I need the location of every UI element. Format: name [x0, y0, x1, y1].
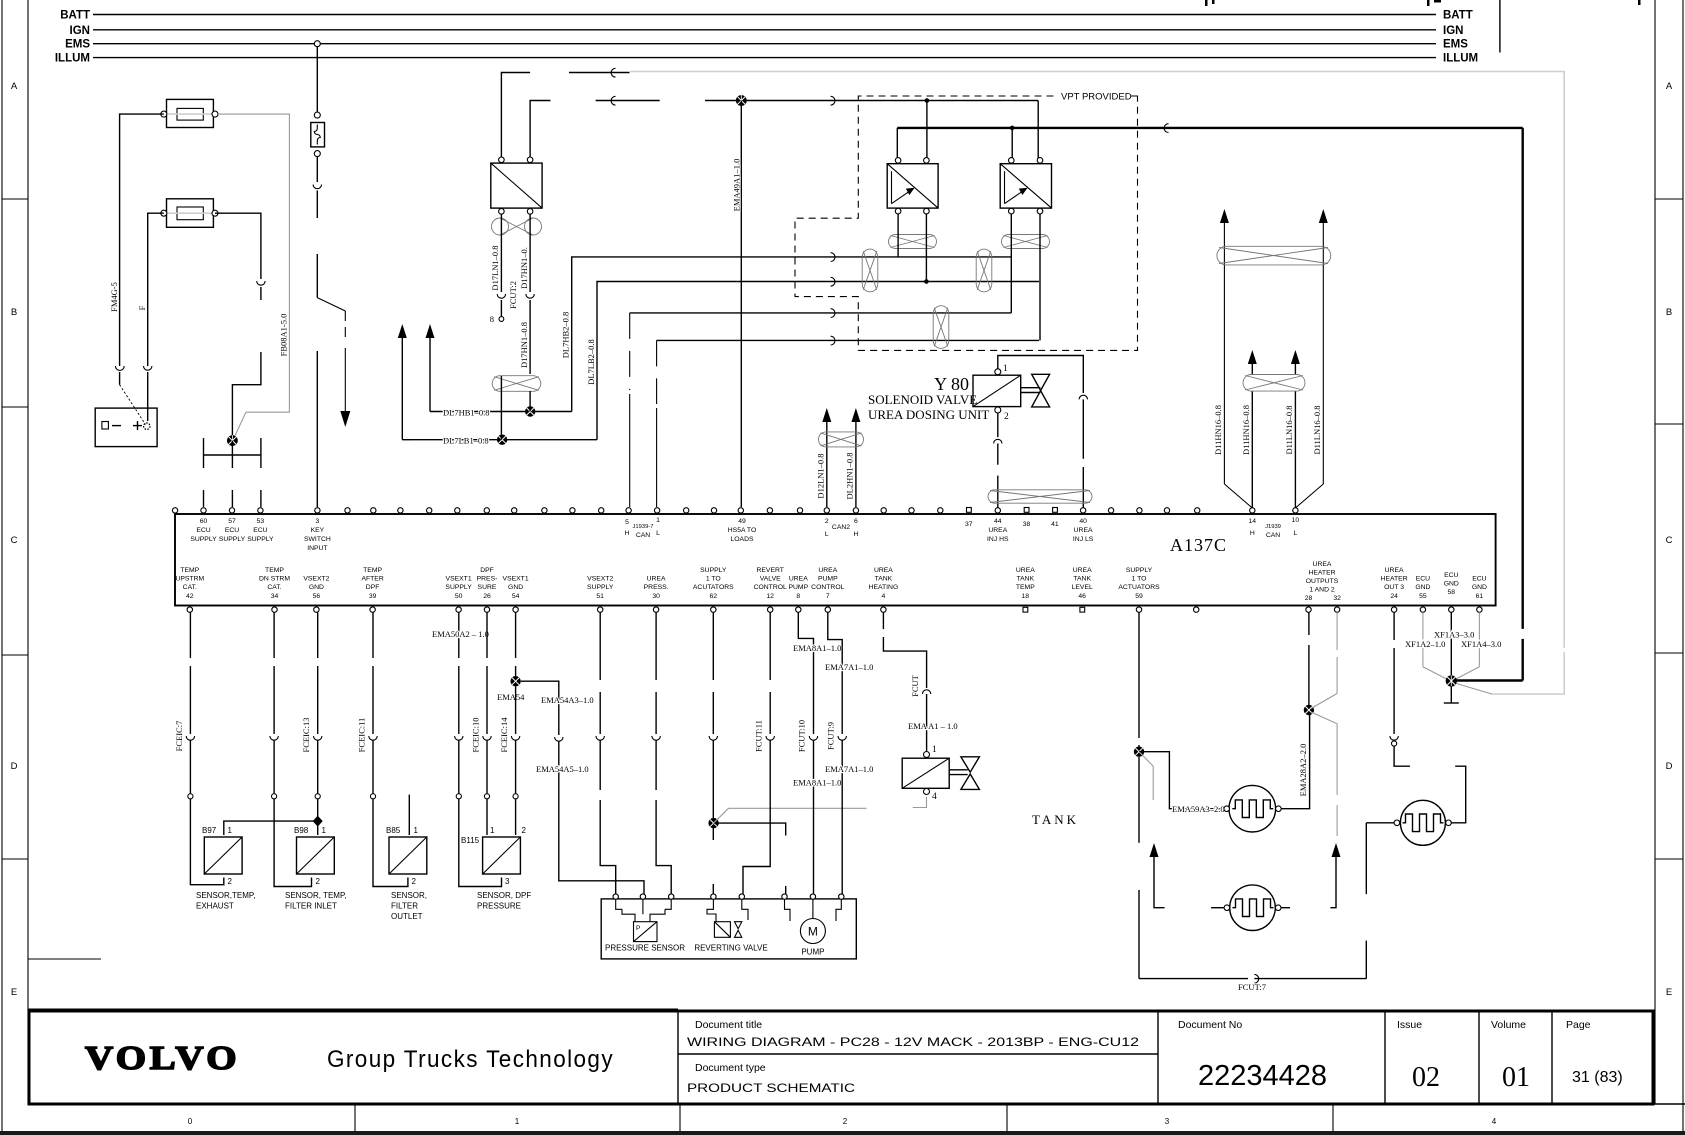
wire pin59 lower loop FCUT:7: [1139, 757, 1394, 992]
wire DL7HB2-0.8 riser: [561, 253, 1012, 412]
svg-text:GND: GND: [1444, 581, 1459, 588]
sensor B115 dpf pressure: [461, 826, 531, 911]
svg-text:FCUT:7: FCUT:7: [1238, 982, 1266, 992]
svg-text:FCEIC:14: FCEIC:14: [499, 717, 509, 753]
svg-text:ECU: ECU: [225, 527, 239, 534]
svg-text:XF1A2–1.0: XF1A2–1.0: [1405, 639, 1445, 649]
svg-text:SURE: SURE: [478, 584, 497, 591]
svg-text:EMA54A3–1.0: EMA54A3–1.0: [541, 695, 594, 705]
svg-text:Document title: Document title: [695, 1019, 762, 1031]
svg-text:CAT.: CAT.: [183, 584, 197, 591]
svg-text:SENSOR, DPF: SENSOR, DPF: [477, 891, 531, 900]
wire DL7LB2-0.8 riser: [586, 277, 1039, 439]
svg-text:54: 54: [512, 593, 520, 600]
svg-text:34: 34: [271, 593, 279, 600]
splice DL7HB1: [525, 406, 535, 416]
svg-text:PRESS.: PRESS.: [644, 584, 669, 591]
svg-text:FCEIC:7: FCEIC:7: [174, 721, 184, 752]
svg-text:CONTROL: CONTROL: [811, 584, 844, 591]
wire grey branch from EMA59 splice: [1139, 752, 1153, 800]
svg-text:HEATING: HEATING: [869, 584, 899, 591]
svg-text:D: D: [1666, 761, 1673, 772]
svg-text:D: D: [11, 761, 18, 772]
svg-text:1: 1: [322, 826, 327, 835]
twisted pair urea injector wires: [988, 490, 1092, 503]
svg-text:CAT.: CAT.: [267, 584, 281, 591]
wire FB08A1-5.0 (grey from fuse F1): [218, 114, 289, 439]
svg-text:LOADS: LOADS: [730, 536, 754, 543]
svg-text:Y 80: Y 80: [934, 374, 969, 394]
svg-text:26: 26: [483, 593, 491, 600]
svg-text:ECU: ECU: [253, 527, 267, 534]
svg-text:PRESSURE SENSOR: PRESSURE SENSOR: [605, 944, 685, 953]
svg-text:ILLUM: ILLUM: [1443, 53, 1478, 65]
svg-text:18: 18: [1022, 593, 1030, 600]
heater R2 urea heater 2: [1224, 885, 1281, 931]
svg-text:D17HN1–0.: D17HN1–0.: [519, 247, 529, 289]
sensor B98 temp filter inlet: [285, 826, 347, 911]
svg-text:22234428: 22234428: [1198, 1060, 1327, 1092]
svg-text:TANK: TANK: [1016, 576, 1034, 583]
svg-text:24: 24: [1390, 593, 1398, 600]
pump motor M (in pump unit): [785, 899, 842, 957]
svg-text:A: A: [11, 81, 18, 92]
svg-text:EMA7A1–1.0: EMA7A1–1.0: [825, 764, 873, 774]
svg-text:Group Trucks Technology: Group Trucks Technology: [327, 1046, 614, 1073]
svg-text:ILLUM: ILLUM: [55, 53, 90, 65]
wire dashed branch with down arrow: [317, 298, 350, 427]
svg-text:VSEXT1: VSEXT1: [446, 576, 472, 583]
svg-text:SUPPLY: SUPPLY: [219, 536, 246, 543]
svg-text:CAN: CAN: [636, 532, 650, 539]
wire pin55 grey to ground: [1405, 612, 1449, 680]
svg-text:6: 6: [854, 518, 858, 525]
svg-text:E: E: [1666, 987, 1672, 998]
svg-text:GND: GND: [1415, 584, 1430, 591]
relay K2: [887, 158, 938, 214]
twisted pair lines3-4: [933, 306, 949, 349]
svg-text:EMS: EMS: [65, 39, 90, 51]
wire EMA28A2-2.0 heater1 to pins28/32: [1281, 612, 1309, 808]
svg-text:GND: GND: [508, 584, 523, 591]
svg-text:EMA28A2–2.0: EMA28A2–2.0: [1298, 744, 1308, 797]
svg-text:PRESSURE: PRESSURE: [477, 902, 521, 911]
heater R3 urea heater 3: [1394, 800, 1451, 845]
breaker EMS (key switch): [311, 47, 325, 507]
svg-text:A: A: [1666, 81, 1673, 92]
wire D17LN1-0.8: [490, 214, 506, 324]
svg-text:VALVE: VALVE: [760, 576, 781, 583]
svg-text:SENSOR, TEMP,: SENSOR, TEMP,: [285, 891, 347, 900]
svg-text:PUMP: PUMP: [788, 584, 808, 591]
svg-text:12: 12: [766, 593, 774, 600]
svg-text:2: 2: [228, 877, 233, 886]
svg-text:2: 2: [522, 826, 527, 835]
svg-text:UREA: UREA: [1385, 567, 1404, 574]
net EMS bus: [65, 39, 1468, 51]
twisted pair D17 upper: [492, 218, 542, 235]
wire FM4G-5: [109, 114, 164, 424]
svg-text:FCUT: FCUT: [910, 674, 920, 697]
svg-text:D17LN1–0.8: D17LN1–0.8: [490, 245, 500, 290]
twisted pair lines1-2 right: [976, 249, 992, 292]
svg-text:A137C: A137C: [1170, 535, 1227, 555]
svg-text:FM4G-5: FM4G-5: [109, 282, 119, 312]
svg-text:14: 14: [1249, 518, 1257, 525]
svg-text:53: 53: [257, 518, 265, 525]
net ILLUM bus: [55, 53, 1478, 65]
wire pin34 to B98: [270, 612, 312, 886]
svg-text:DL2HN1–0.8: DL2HN1–0.8: [845, 453, 855, 500]
svg-text:D11HN16–0.8: D11HN16–0.8: [1241, 405, 1251, 455]
svg-text:FB08A1-5.0: FB08A1-5.0: [279, 314, 289, 357]
svg-text:B85: B85: [386, 826, 401, 835]
solenoid valve Y80: [868, 364, 1050, 422]
svg-text:UREA: UREA: [1073, 567, 1092, 574]
svg-text:EMA59A3–2.0: EMA59A3–2.0: [1172, 804, 1225, 814]
svg-text:PUMP: PUMP: [818, 576, 838, 583]
svg-text:1: 1: [490, 826, 495, 835]
wire relay feed line B: [897, 124, 1522, 160]
svg-text:BATT: BATT: [1443, 10, 1473, 22]
svg-text:B115: B115: [461, 836, 480, 845]
svg-text:PUMP: PUMP: [801, 948, 824, 957]
reverting valve (in pump unit): [694, 899, 767, 953]
fuse F2: [161, 199, 218, 228]
svg-text:LEVEL: LEVEL: [1072, 584, 1093, 591]
wire EMA49A1-1.0: [732, 101, 742, 508]
svg-text:49: 49: [738, 518, 746, 525]
wire pin39 to B85 (FCEIC:11): [357, 612, 408, 886]
twisted pair lines1-2 left: [862, 249, 878, 292]
wire K2 outputs: [898, 214, 929, 284]
svg-text:4: 4: [882, 593, 886, 600]
svg-text:EMA49A1–1.0: EMA49A1–1.0: [732, 159, 742, 212]
svg-text:40: 40: [1079, 518, 1087, 525]
label TANK: [1032, 812, 1079, 827]
svg-text:DL7HB1–0.8: DL7HB1–0.8: [443, 408, 490, 418]
splice supply actuators: [708, 818, 718, 828]
pump unit box: [601, 894, 856, 959]
svg-text:EXHAUST: EXHAUST: [196, 902, 234, 911]
svg-text:7: 7: [826, 593, 830, 600]
svg-text:TEMP: TEMP: [265, 567, 284, 574]
svg-text:J1939: J1939: [1265, 524, 1281, 530]
wire J1939 CAN pin10 L: [1291, 350, 1300, 512]
wire relay feed line A verticals: [925, 98, 1039, 160]
splice XF1A ground: [1446, 675, 1457, 686]
wire pin62 supply to actuators: [709, 612, 717, 894]
svg-text:3: 3: [505, 877, 510, 886]
svg-text:DL7LB2–0.8: DL7LB2–0.8: [586, 339, 596, 385]
wire pin7 urea pump control (FCUT:9): [825, 612, 873, 894]
svg-text:SOLENOID VALVE: SOLENOID VALVE: [868, 392, 977, 407]
twisted pair J1939 inner: [1243, 375, 1305, 392]
wire J1939-7 CAN H (dashed): [630, 309, 1012, 507]
wire pin56 VSEXT2 GND (FCEIC:13): [301, 612, 322, 835]
wire pin4 urea tank heating (FCUT): [883, 612, 957, 751]
svg-text:D12LN1–0.8: D12LN1–0.8: [816, 453, 826, 498]
svg-text:ECU: ECU: [1472, 576, 1486, 583]
ECU A137C: [175, 514, 1496, 606]
svg-text:SENSOR,: SENSOR,: [391, 891, 427, 900]
wire Y80 pin1 feed: [998, 356, 1088, 513]
wire splice to reverting valve coil: [714, 823, 786, 894]
svg-text:4: 4: [932, 792, 937, 802]
pin labels top row: [190, 517, 1299, 552]
svg-text:3: 3: [316, 518, 320, 525]
svg-text:TEMP: TEMP: [180, 567, 199, 574]
svg-text:1: 1: [932, 745, 937, 755]
svg-text:EMA7A1–1.0: EMA7A1–1.0: [825, 662, 873, 672]
twisted pair D17 lower: [492, 376, 541, 440]
svg-text:EMA50A2 – 1.0: EMA50A2 – 1.0: [432, 629, 489, 639]
splice pin28/32: [1304, 705, 1314, 715]
wire pin8 urea pump (FCUT:10): [793, 612, 841, 894]
wire pin26 to B115 pin1 (FCEIC:10): [471, 612, 492, 835]
svg-text:INJ LS: INJ LS: [1073, 536, 1094, 543]
svg-text:B98: B98: [294, 826, 309, 835]
svg-text:EMA54: EMA54: [497, 692, 525, 702]
svg-text:TEMP: TEMP: [1016, 584, 1035, 591]
svg-text:UREA: UREA: [789, 576, 808, 583]
svg-text:Volume: Volume: [1491, 1019, 1526, 1031]
svg-text:DL7LB1–0.8: DL7LB1–0.8: [443, 436, 489, 446]
wire K1 pin feed upper: [501, 68, 629, 157]
wire pin24 urea heater out3: [1390, 612, 1410, 766]
svg-text:FCEIC:10: FCEIC:10: [471, 718, 481, 753]
svg-text:DPF: DPF: [366, 584, 380, 591]
svg-text:L: L: [656, 530, 660, 537]
twisted pair CAN2: [819, 432, 864, 447]
pin labels bottom row: [175, 561, 1487, 602]
svg-text:3: 3: [1165, 1117, 1170, 1126]
svg-text:31 (83): 31 (83): [1572, 1069, 1623, 1086]
ECU bottom pins: [187, 607, 1482, 612]
svg-text:2: 2: [843, 1117, 848, 1126]
svg-text:HS5A TO: HS5A TO: [728, 527, 756, 534]
svg-text:AFTER: AFTER: [361, 576, 383, 583]
svg-text:EMA A1 – 1.0: EMA A1 – 1.0: [908, 721, 958, 731]
wire pin32 grey: [1311, 612, 1337, 836]
svg-text:Document No: Document No: [1178, 1019, 1242, 1031]
svg-text:D11LN16–0.8: D11LN16–0.8: [1312, 405, 1322, 454]
svg-text:HEATER: HEATER: [1308, 570, 1335, 577]
svg-text:D11LN16–0.8: D11LN16–0.8: [1284, 405, 1294, 454]
splice ECU supply: [227, 435, 238, 446]
svg-text:10: 10: [1292, 517, 1300, 524]
svg-text:SWITCH: SWITCH: [304, 536, 331, 543]
solenoid valve urea tank: [902, 745, 979, 802]
svg-text:TANK: TANK: [1073, 576, 1091, 583]
svg-text:ACUTATORS: ACUTATORS: [693, 584, 734, 591]
wire EMA54A3/EMA54A5: [521, 681, 644, 894]
svg-text:1: 1: [1003, 364, 1008, 374]
svg-text:44: 44: [994, 518, 1002, 525]
svg-text:2: 2: [412, 877, 417, 886]
svg-text:51: 51: [596, 593, 604, 600]
svg-text:SUPPLY: SUPPLY: [1126, 567, 1153, 574]
twisted pair under K2: [889, 235, 937, 249]
svg-text:VPT PROVIDED: VPT PROVIDED: [1061, 92, 1132, 103]
svg-text:37: 37: [965, 521, 973, 528]
wire EMA59A3-2.0 to heater1: [1139, 752, 1225, 814]
svg-text:58: 58: [1448, 589, 1456, 596]
svg-text:1: 1: [228, 826, 233, 835]
svg-text:41: 41: [1051, 521, 1059, 528]
svg-text:FCEIC:11: FCEIC:11: [357, 718, 367, 753]
wire grey to tank valve pin4: [714, 797, 927, 823]
svg-text:FCEIC:13: FCEIC:13: [301, 718, 311, 753]
relay K1 (diode module): [491, 157, 542, 214]
svg-text:SUPPLY: SUPPLY: [190, 536, 217, 543]
svg-text:62: 62: [710, 593, 718, 600]
svg-text:F: F: [137, 305, 147, 310]
svg-text:2: 2: [1004, 412, 1009, 422]
svg-text:4: 4: [1492, 1117, 1497, 1126]
svg-text:VSEXT2: VSEXT2: [303, 576, 329, 583]
twisted pair J1939 outer: [1217, 246, 1331, 265]
svg-text:HEATER: HEATER: [1381, 576, 1408, 583]
svg-text:46: 46: [1078, 593, 1086, 600]
svg-text:KEY: KEY: [311, 527, 325, 534]
svg-text:XF1A3–3.0: XF1A3–3.0: [1434, 630, 1474, 640]
svg-text:42: 42: [186, 593, 194, 600]
top edge glyph fragments: [1205, 0, 1641, 6]
title block: [29, 1011, 1653, 1104]
svg-text:60: 60: [200, 518, 208, 525]
wire B85 pin1 stub: [408, 795, 410, 835]
svg-text:BATT: BATT: [60, 10, 90, 22]
heater R1 urea heater 1: [1224, 785, 1281, 832]
svg-text:SUPPLY: SUPPLY: [247, 536, 274, 543]
wire J1939-7 CAN L (dashed): [657, 336, 1039, 507]
svg-text:L: L: [825, 531, 829, 538]
svg-text:TANK: TANK: [875, 576, 893, 583]
splice DL7LB1: [497, 435, 507, 445]
svg-text:D11HN16–0.8: D11HN16–0.8: [1213, 405, 1223, 455]
sensor B85 filter outlet: [386, 826, 427, 921]
wire grey offpage top: [630, 72, 1564, 695]
fuse F1: [161, 99, 218, 127]
svg-text:2: 2: [825, 518, 829, 525]
wire D17HN1-0.8: [508, 214, 534, 374]
ground symbol: [1444, 686, 1459, 703]
wire K1 pin feed lower: [530, 96, 1038, 157]
svg-text:UREA: UREA: [1016, 567, 1035, 574]
wire J1939 CAN pin14 H: [1248, 350, 1257, 512]
wire pin42 to B97 (FCEIC:7): [174, 612, 224, 884]
svg-text:0: 0: [188, 1117, 193, 1126]
twisted pair under K3: [1002, 235, 1050, 249]
relay K3: [1000, 158, 1051, 214]
svg-text:61: 61: [1476, 593, 1484, 600]
wire pin12 revert valve control (FCUT:11): [743, 612, 774, 894]
splice EMA54: [510, 676, 520, 686]
wire F (fuse F2 to battery +): [137, 213, 164, 421]
node EMS tap: [314, 41, 320, 47]
svg-text:CONTROL: CONTROL: [754, 584, 787, 591]
svg-text:DPF: DPF: [480, 567, 494, 574]
svg-text:2: 2: [316, 877, 321, 886]
svg-text:FILTER INLET: FILTER INLET: [285, 902, 337, 911]
svg-text:PRES-: PRES-: [477, 576, 498, 583]
svg-text:ECU: ECU: [1444, 572, 1458, 579]
pressure sensor (in pump unit): [605, 899, 685, 953]
svg-text:EMA8A1–1.0: EMA8A1–1.0: [793, 643, 841, 653]
wire D11HN16-0.8 branch: [1213, 209, 1252, 508]
svg-text:DN STRM: DN STRM: [259, 576, 290, 583]
svg-text:50: 50: [455, 593, 463, 600]
svg-text:IGN: IGN: [1443, 25, 1463, 37]
svg-text:REVERTING VALVE: REVERTING VALVE: [694, 944, 767, 953]
svg-text:56: 56: [313, 593, 321, 600]
wire ECU supply bus bar: [204, 438, 261, 507]
VPT PROVIDED dashed boundary: [795, 90, 1138, 350]
svg-text:INPUT: INPUT: [307, 545, 327, 552]
svg-text:B: B: [11, 307, 17, 318]
wire pin51 to pump box: [596, 612, 616, 894]
wire heater2 right with up arrow: [1281, 843, 1341, 908]
svg-text:38: 38: [1023, 521, 1031, 528]
svg-text:Issue: Issue: [1397, 1019, 1422, 1031]
svg-text:SUPPLY: SUPPLY: [700, 567, 727, 574]
svg-text:UREA: UREA: [874, 567, 893, 574]
svg-text:XF1A4–3.0: XF1A4–3.0: [1461, 639, 1501, 649]
svg-text:IGN: IGN: [70, 25, 90, 37]
svg-text:57: 57: [228, 518, 236, 525]
svg-text:INJ HS: INJ HS: [987, 536, 1009, 543]
svg-text:8: 8: [490, 314, 494, 324]
svg-text:ECU: ECU: [1416, 576, 1430, 583]
svg-text:01: 01: [1502, 1062, 1530, 1093]
sensor B97 temp exhaust: [196, 826, 255, 911]
svg-text:VSEXT1: VSEXT1: [503, 576, 529, 583]
splice EMA59: [1134, 747, 1144, 757]
wire heater2 left with up arrow: [1150, 843, 1224, 908]
svg-text:UREA: UREA: [818, 567, 837, 574]
svg-text:GND: GND: [1472, 584, 1487, 591]
svg-text:1: 1: [656, 517, 660, 524]
wire pin50 to B115: [432, 612, 502, 886]
svg-text:PRODUCT SCHEMATIC: PRODUCT SCHEMATIC: [687, 1081, 855, 1095]
svg-text:FCUT:9: FCUT:9: [826, 722, 836, 750]
wire pin30 to pump box: [652, 612, 671, 894]
wire pin61 grey to ground: [1454, 612, 1501, 680]
net BATT bus: [60, 10, 1473, 22]
svg-text:UREA: UREA: [988, 527, 1007, 534]
net IGN bus: [70, 25, 1464, 37]
ECU top pins: [172, 508, 1298, 514]
svg-text:UPSTRM: UPSTRM: [175, 576, 204, 583]
svg-text:H: H: [625, 530, 630, 537]
svg-text:TANK: TANK: [1032, 812, 1079, 827]
svg-text:8: 8: [796, 593, 800, 600]
svg-text:E: E: [11, 987, 17, 998]
wire Y80 pin2 return: [994, 413, 1002, 512]
wire pin54 to B115 pin2 (FCEIC:14): [497, 612, 525, 835]
svg-text:D17HN1–0.8: D17HN1–0.8: [519, 322, 529, 368]
wire line B down to ground: [1454, 128, 1523, 681]
svg-text:B: B: [1666, 307, 1672, 318]
svg-text:ACTUATORS: ACTUATORS: [1118, 584, 1160, 591]
svg-text:SENSOR,TEMP,: SENSOR,TEMP,: [196, 891, 255, 900]
svg-text:FCUT:10: FCUT:10: [797, 720, 807, 752]
svg-text:GND: GND: [309, 584, 324, 591]
svg-text:Page: Page: [1566, 1019, 1591, 1031]
wire pin59 supply actuators: [1138, 612, 1140, 751]
svg-text:L: L: [1294, 530, 1298, 537]
